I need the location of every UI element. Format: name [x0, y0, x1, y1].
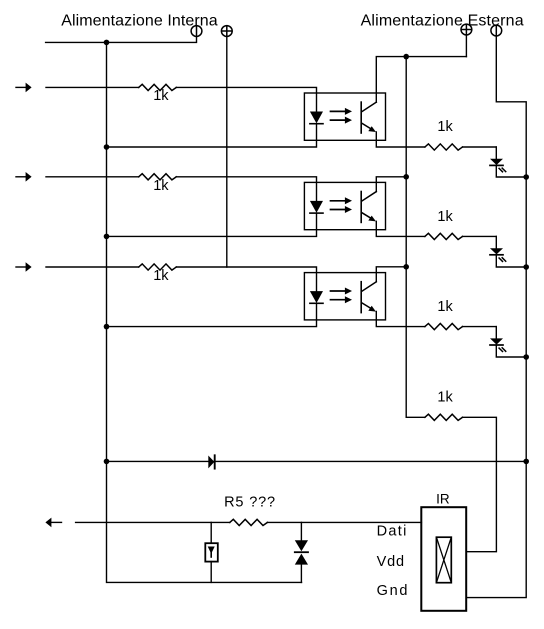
- wire: U3 collector up: [376, 267, 406, 282]
- wire: Dati row left: [76, 521, 230, 523]
- wire: Vdd feed to IR module: [463, 417, 497, 551]
- junction at mid bus row 2: [403, 174, 409, 180]
- wire: row 1 to opto LED: [176, 87, 316, 111]
- wire: clamp row: [107, 460, 527, 462]
- resistor R1 1k: [139, 84, 177, 90]
- wire: U2 LED cathode to left bus: [107, 213, 317, 236]
- wire: row 2 to opto LED: [176, 177, 316, 201]
- diode D4: [208, 455, 214, 468]
- output arrow (Dati): [45, 518, 61, 528]
- svg-text:1k: 1k: [153, 178, 169, 194]
- optocoupler U2 light arrows: [331, 197, 353, 213]
- junction at left bus / top wire: [104, 40, 110, 46]
- svg-text:Gnd: Gnd: [377, 583, 408, 599]
- input arrow row 1: [16, 83, 32, 93]
- wire: U3 output resistor to D3: [463, 326, 497, 328]
- resistor 1k (U3 output): [425, 324, 463, 330]
- svg-text:Vdd: Vdd: [377, 554, 405, 570]
- diode D5 (boxed): [205, 522, 218, 582]
- IR receiver module: [421, 507, 466, 611]
- optocoupler U1 light arrows: [331, 108, 353, 124]
- power terminal: internal supply minus: [191, 26, 202, 37]
- optocoupler U2 phototransistor: [361, 192, 376, 223]
- input arrow row 3: [16, 262, 32, 272]
- junction at left bus row 2: [104, 234, 110, 240]
- IR module crossed box: [436, 537, 451, 583]
- resistor 1k (Vdd feed): [425, 414, 463, 420]
- wire: U1 emitter down: [376, 132, 425, 147]
- junction at right bus row 2: [523, 264, 529, 270]
- power terminal: internal supply plus: [221, 26, 232, 37]
- svg-text:1k: 1k: [153, 268, 169, 284]
- LED D2: [490, 248, 506, 261]
- junction at right bus clamp row: [523, 459, 529, 465]
- junction at left bus clamp row: [104, 459, 110, 465]
- wire: U1 collector up: [376, 57, 466, 103]
- wire: U2 emitter down: [376, 221, 425, 236]
- optocoupler U1 phototransistor: [361, 102, 376, 133]
- junction at mid bus top: [403, 54, 409, 60]
- power terminal: external supply plus: [461, 24, 472, 35]
- wire: U3 LED cathode to left bus: [107, 303, 317, 326]
- wire: U1 LED cathode to left bus: [107, 124, 317, 147]
- LED D1: [490, 159, 506, 172]
- wire: U2 output resistor to D2: [463, 235, 497, 237]
- wire: D2 anode/cathode: [495, 236, 497, 248]
- svg-text:1k: 1k: [437, 299, 453, 315]
- TVS diode D6: [295, 522, 308, 582]
- wire: left vertical bus: [107, 42, 302, 582]
- resistor 1k (U1 output): [425, 144, 463, 150]
- wire: internal plus bus vertical: [226, 36, 228, 267]
- resistor R5: [230, 519, 268, 525]
- input arrow row 2: [16, 172, 32, 182]
- wire: mid bus vertical: [405, 57, 407, 418]
- optocoupler U3 body: [304, 273, 385, 320]
- wire: Dati row right: [267, 521, 421, 523]
- wire: internal minus terminal drop: [46, 36, 197, 42]
- resistor 1k (U2 output): [425, 233, 463, 239]
- optocoupler U3 light arrows: [331, 288, 353, 304]
- optocoupler U1 LED: [310, 112, 323, 124]
- junction at mid bus row 3: [403, 264, 409, 270]
- wire: D1 anode/cathode: [495, 147, 497, 159]
- junction at right bus row 3: [523, 354, 529, 360]
- wire: external plus terminal drop: [465, 35, 467, 57]
- junction at left bus row 1: [104, 144, 110, 150]
- resistor R3 1k: [139, 264, 177, 270]
- LED D3: [490, 338, 506, 351]
- resistor R2 1k: [139, 174, 177, 180]
- junction at right bus row 1: [523, 174, 529, 180]
- optocoupler U3 LED: [310, 291, 323, 303]
- power terminal: external supply minus: [491, 25, 502, 36]
- junction at left bus row 3: [104, 324, 110, 330]
- svg-text:1k: 1k: [437, 119, 453, 135]
- wire: D3 anode/cathode: [495, 327, 497, 339]
- wire: external minus to right bus: [466, 36, 526, 598]
- optocoupler U1 body: [304, 93, 385, 140]
- svg-text:R5 ???: R5 ???: [224, 494, 275, 510]
- svg-text:1k: 1k: [437, 390, 453, 406]
- wire: U1 output resistor to D1: [463, 146, 497, 148]
- wire: input row 1: [46, 86, 139, 88]
- optocoupler U2 LED: [310, 201, 323, 213]
- wire: row 3 to opto LED: [176, 267, 316, 291]
- wire: mid bus to resistor: [406, 416, 425, 418]
- wire: U2 collector up: [376, 177, 406, 192]
- svg-text:IR: IR: [436, 492, 450, 507]
- wire: U3 emitter down: [376, 312, 425, 327]
- optocoupler U2 body: [304, 182, 385, 229]
- wire: input row 3: [46, 266, 139, 268]
- wire: input row 2: [46, 176, 139, 178]
- optocoupler U3 phototransistor: [361, 282, 376, 313]
- svg-text:1k: 1k: [437, 209, 453, 225]
- svg-text:1k: 1k: [153, 88, 169, 104]
